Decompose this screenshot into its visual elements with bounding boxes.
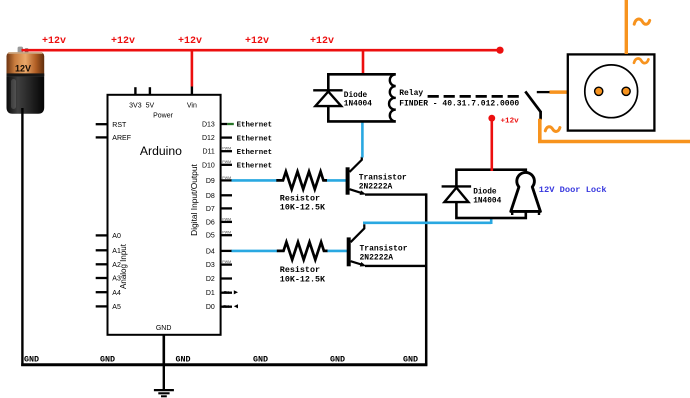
svg-text:D7: D7 xyxy=(206,206,215,213)
svg-text:A4: A4 xyxy=(112,290,121,297)
svg-text:D0: D0 xyxy=(206,304,215,311)
svg-text:1N4004: 1N4004 xyxy=(344,100,372,108)
wire Q2 collector to door lock blue xyxy=(363,222,491,225)
svg-text:10K-12.5K: 10K-12.5K xyxy=(280,203,326,213)
svg-text:2N2222A: 2N2222A xyxy=(360,253,394,262)
svg-text:5V: 5V xyxy=(146,102,155,109)
svg-text:D8: D8 xyxy=(206,193,215,200)
svg-text:D1: D1 xyxy=(206,290,215,297)
pin D7 stub xyxy=(221,207,232,209)
svg-text:D3: D3 xyxy=(206,262,215,269)
pin AREF stub xyxy=(96,136,108,138)
svg-text:+12v: +12v xyxy=(245,36,269,47)
svg-text:1N4004: 1N4004 xyxy=(473,198,501,206)
svg-text:PWM: PWM xyxy=(222,176,231,180)
svg-text:RST: RST xyxy=(112,122,127,129)
battery BT1 12V xyxy=(7,47,45,114)
wire Q1 emitter to ground bus xyxy=(365,193,426,195)
pin A4 stub xyxy=(96,291,108,293)
pin A5 stub xyxy=(96,305,108,307)
svg-text:RX: RX xyxy=(223,304,229,309)
switch fixed contact xyxy=(537,91,550,93)
wire orange socket top xyxy=(625,0,628,54)
svg-text:+12v: +12v xyxy=(501,118,520,126)
svg-text:TX: TX xyxy=(224,290,230,295)
wire +12v to Vin xyxy=(191,50,194,86)
wire Q1 collector to relay blue xyxy=(361,121,364,158)
pin D9 stub xyxy=(221,179,232,181)
pin 3V3 xyxy=(134,87,136,95)
svg-text:+12v: +12v xyxy=(178,36,202,47)
resistor R2 xyxy=(277,242,328,260)
svg-text:D10: D10 xyxy=(202,162,215,169)
wire orange switch to socket xyxy=(550,90,568,94)
svg-text:FINDER - 40.31.7.012.0000: FINDER - 40.31.7.012.0000 xyxy=(399,99,519,108)
pin A3 stub xyxy=(96,277,108,279)
svg-text:A5: A5 xyxy=(112,304,121,311)
svg-text:Vin: Vin xyxy=(187,102,197,109)
pin D0 stub xyxy=(221,306,232,308)
svg-text:2N2222A: 2N2222A xyxy=(359,182,393,191)
svg-text:D13: D13 xyxy=(202,122,215,129)
pin D1 stub xyxy=(221,292,232,294)
svg-text:D6: D6 xyxy=(206,219,215,226)
svg-text:+12v: +12v xyxy=(111,36,135,47)
pin D2 stub xyxy=(221,277,232,279)
svg-text:D12: D12 xyxy=(202,135,215,142)
wire orange switch to bottom right xyxy=(540,119,690,142)
svg-text:GND: GND xyxy=(403,355,418,365)
socket hole left xyxy=(595,87,603,95)
svg-text:PWM: PWM xyxy=(222,160,231,164)
pin Vin xyxy=(191,87,193,95)
svg-text:Ethernet: Ethernet xyxy=(237,149,272,157)
transistor Q1 2N2222A xyxy=(348,157,367,195)
pin GND xyxy=(163,335,166,366)
svg-text:D2: D2 xyxy=(206,276,215,283)
ground rail xyxy=(21,363,427,366)
pin RST stub xyxy=(96,123,108,125)
wire dashed relay to switch xyxy=(428,95,519,98)
svg-text:Diode: Diode xyxy=(344,92,368,100)
svg-text:Relay: Relay xyxy=(399,89,423,98)
wire D4 to R2 blue xyxy=(232,250,278,253)
svg-text:Power: Power xyxy=(153,112,174,119)
svg-text:D11: D11 xyxy=(202,149,214,156)
squiggle in socket xyxy=(634,59,648,64)
wire +12v to door lock xyxy=(490,118,493,171)
svg-text:+12v: +12v xyxy=(310,36,334,47)
svg-text:PWM: PWM xyxy=(222,217,231,221)
pin 5V xyxy=(149,87,151,95)
diode D2 1N4004 xyxy=(442,185,472,187)
wire emitter bus to ground rail xyxy=(425,193,428,365)
pin D12 stub xyxy=(221,136,232,138)
svg-text:Transistor: Transistor xyxy=(359,173,407,182)
svg-text:Ethernet: Ethernet xyxy=(237,135,272,143)
svg-text:GND: GND xyxy=(24,355,39,365)
svg-text:D4: D4 xyxy=(206,248,215,255)
diode D1 1N4004 xyxy=(313,89,342,91)
svg-text:GND: GND xyxy=(176,355,191,365)
socket hole right xyxy=(622,87,630,95)
resistor R1 xyxy=(276,172,327,190)
switch SW1 blade xyxy=(525,91,540,111)
svg-text:A1: A1 xyxy=(112,248,121,255)
squiggle near switch xyxy=(545,127,560,132)
svg-text:GND: GND xyxy=(253,355,268,365)
wire battery negative to ground rail xyxy=(21,108,23,366)
node +12v dot xyxy=(488,115,495,122)
node rail end dot xyxy=(496,47,503,54)
svg-text:12V Door Lock: 12V Door Lock xyxy=(539,185,607,195)
svg-text:Arduino: Arduino xyxy=(140,144,182,158)
wire R1 to Q1 base blue xyxy=(327,179,346,182)
pin D13 stub xyxy=(221,123,228,125)
wire blue stub into lock block xyxy=(490,218,493,225)
svg-text:A3: A3 xyxy=(112,276,121,283)
pin A0 stub xyxy=(96,234,108,236)
svg-text:12V: 12V xyxy=(15,64,31,74)
pin A2 stub xyxy=(96,263,108,265)
wire R2 to Q2 base blue xyxy=(328,250,348,253)
svg-text:10K-12.5K: 10K-12.5K xyxy=(280,274,326,284)
door lock solenoid symbol xyxy=(511,172,541,211)
svg-text:GND: GND xyxy=(156,325,172,332)
svg-text:+12v: +12v xyxy=(42,36,66,47)
pin D5 stub xyxy=(221,234,232,236)
pin A1 stub xyxy=(96,249,108,251)
svg-text:Digital Input/Output: Digital Input/Output xyxy=(189,163,199,235)
relay K1 box xyxy=(328,74,395,121)
pin D10 stub xyxy=(221,164,232,166)
svg-text:PWM: PWM xyxy=(222,147,231,151)
power socket xyxy=(568,54,655,130)
svg-text:PWM: PWM xyxy=(222,231,231,235)
wire +12v to relay K1 xyxy=(362,50,365,75)
Arduino board U1 xyxy=(108,95,221,335)
svg-text:Ethernet: Ethernet xyxy=(237,122,272,130)
squiggle top right xyxy=(634,19,650,24)
switch pole xyxy=(539,111,542,120)
svg-text:D9: D9 xyxy=(206,178,215,185)
wire Q2 emitter to ground bus xyxy=(365,265,426,267)
svg-text:GND: GND xyxy=(100,355,115,365)
svg-text:PWM: PWM xyxy=(222,260,231,264)
svg-text:D5: D5 xyxy=(206,233,215,240)
pin D6 stub xyxy=(221,221,232,223)
transistor Q2 2N2222A xyxy=(349,224,367,266)
door lock block box xyxy=(456,170,525,218)
svg-text:GND: GND xyxy=(330,355,345,365)
relay K1 coil xyxy=(389,74,396,121)
wire D9 to R1 blue xyxy=(232,179,277,182)
svg-text:A2: A2 xyxy=(112,262,121,269)
svg-text:AREF: AREF xyxy=(112,135,131,142)
ground symbol xyxy=(154,366,174,396)
svg-text:3V3: 3V3 xyxy=(129,102,142,109)
svg-text:Ethernet: Ethernet xyxy=(237,163,272,171)
+12v power rail xyxy=(22,49,501,52)
svg-text:A0: A0 xyxy=(112,233,121,240)
pin D4 stub xyxy=(221,250,232,252)
pin D8 stub xyxy=(221,194,232,196)
pin D11 stub xyxy=(221,150,232,152)
svg-text:Transistor: Transistor xyxy=(360,244,408,253)
pin D3 stub xyxy=(221,263,232,265)
wire green D13 xyxy=(227,123,234,125)
svg-text:Diode: Diode xyxy=(473,188,497,196)
